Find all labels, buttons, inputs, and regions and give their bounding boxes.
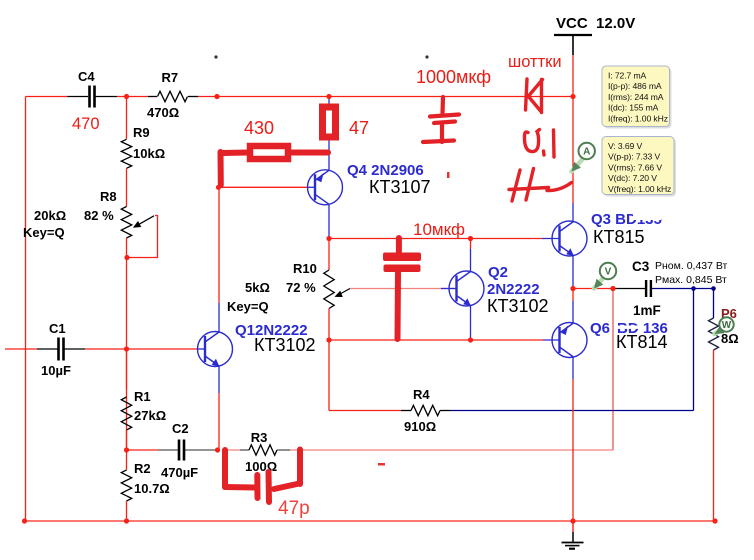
svg-text:КТ3107: КТ3107 (369, 177, 431, 197)
svg-text:R9: R9 (133, 125, 150, 140)
svg-text:10kΩ: 10kΩ (133, 146, 165, 161)
svg-text:910Ω: 910Ω (404, 419, 436, 434)
svg-text:R8: R8 (100, 189, 117, 204)
svg-text:V(dc): 7.20 V: V(dc): 7.20 V (608, 173, 657, 183)
svg-text:100Ω: 100Ω (245, 459, 277, 474)
svg-text:C4: C4 (78, 69, 95, 84)
svg-text:I(dc): 155 mA: I(dc): 155 mA (608, 103, 659, 113)
svg-text:10.7Ω: 10.7Ω (134, 481, 170, 496)
svg-text:C3: C3 (632, 259, 650, 274)
svg-text:R7: R7 (162, 70, 179, 85)
svg-text:1000мкф: 1000мкф (416, 67, 491, 87)
svg-text:Key=Q: Key=Q (23, 225, 65, 240)
svg-text:Рном. 0,437 Вт: Рном. 0,437 Вт (655, 260, 728, 272)
svg-text:V(p-p): 7.33 V: V(p-p): 7.33 V (608, 152, 660, 162)
svg-text:470µF: 470µF (161, 465, 198, 480)
svg-text:R10: R10 (293, 261, 317, 276)
svg-text:Q2: Q2 (488, 264, 508, 281)
svg-text:W: W (722, 320, 732, 331)
svg-text:R4: R4 (413, 387, 430, 402)
svg-text:A: A (583, 147, 590, 158)
svg-text:Key=Q: Key=Q (227, 299, 269, 314)
svg-text:10мкф: 10мкф (413, 220, 465, 239)
svg-text:72 %: 72 % (286, 280, 316, 295)
svg-text:Q6: Q6 (590, 320, 610, 337)
svg-text:V: V (605, 267, 612, 278)
svg-text:V: 3.69 V: V: 3.69 V (608, 141, 643, 151)
svg-text:КТ3102: КТ3102 (254, 335, 316, 355)
svg-text:C2: C2 (172, 421, 189, 436)
svg-text:I(p-p): 486 mA: I(p-p): 486 mA (608, 81, 662, 91)
svg-text:VCC 12.0V: VCC 12.0V (556, 15, 635, 32)
svg-text:I: 72.7 mA: I: 72.7 mA (608, 70, 647, 80)
svg-text:V(freq): 1.00 kHz: V(freq): 1.00 kHz (608, 184, 671, 194)
svg-text:47: 47 (349, 118, 369, 138)
svg-text:47p: 47p (278, 498, 310, 519)
svg-text:R2: R2 (134, 461, 151, 476)
svg-text:I(freq): 1.00 kHz: I(freq): 1.00 kHz (608, 114, 668, 124)
svg-text:КТ3102: КТ3102 (487, 296, 549, 316)
svg-text:КТ814: КТ814 (616, 332, 668, 352)
svg-text:R1: R1 (134, 389, 151, 404)
svg-text:20kΩ: 20kΩ (34, 208, 66, 223)
svg-text:R3: R3 (251, 430, 268, 445)
svg-text:430: 430 (244, 118, 274, 138)
svg-text:C1: C1 (49, 321, 66, 336)
svg-text:Рмах. 0,845 Вт: Рмах. 0,845 Вт (655, 274, 727, 286)
svg-text:470: 470 (72, 115, 100, 133)
svg-text:I(rms): 244 mA: I(rms): 244 mA (608, 92, 664, 102)
svg-text:470Ω: 470Ω (147, 105, 179, 120)
svg-text:КТ815: КТ815 (593, 227, 645, 247)
svg-text:5kΩ: 5kΩ (245, 280, 270, 295)
svg-text:82 %: 82 % (84, 208, 114, 223)
svg-text:1mF: 1mF (633, 303, 661, 318)
svg-text:10µF: 10µF (41, 363, 71, 378)
svg-text:шоттки: шоттки (508, 53, 562, 71)
svg-text:27kΩ: 27kΩ (134, 408, 166, 423)
svg-text:V(rms): 7.66 V: V(rms): 7.66 V (608, 162, 662, 172)
